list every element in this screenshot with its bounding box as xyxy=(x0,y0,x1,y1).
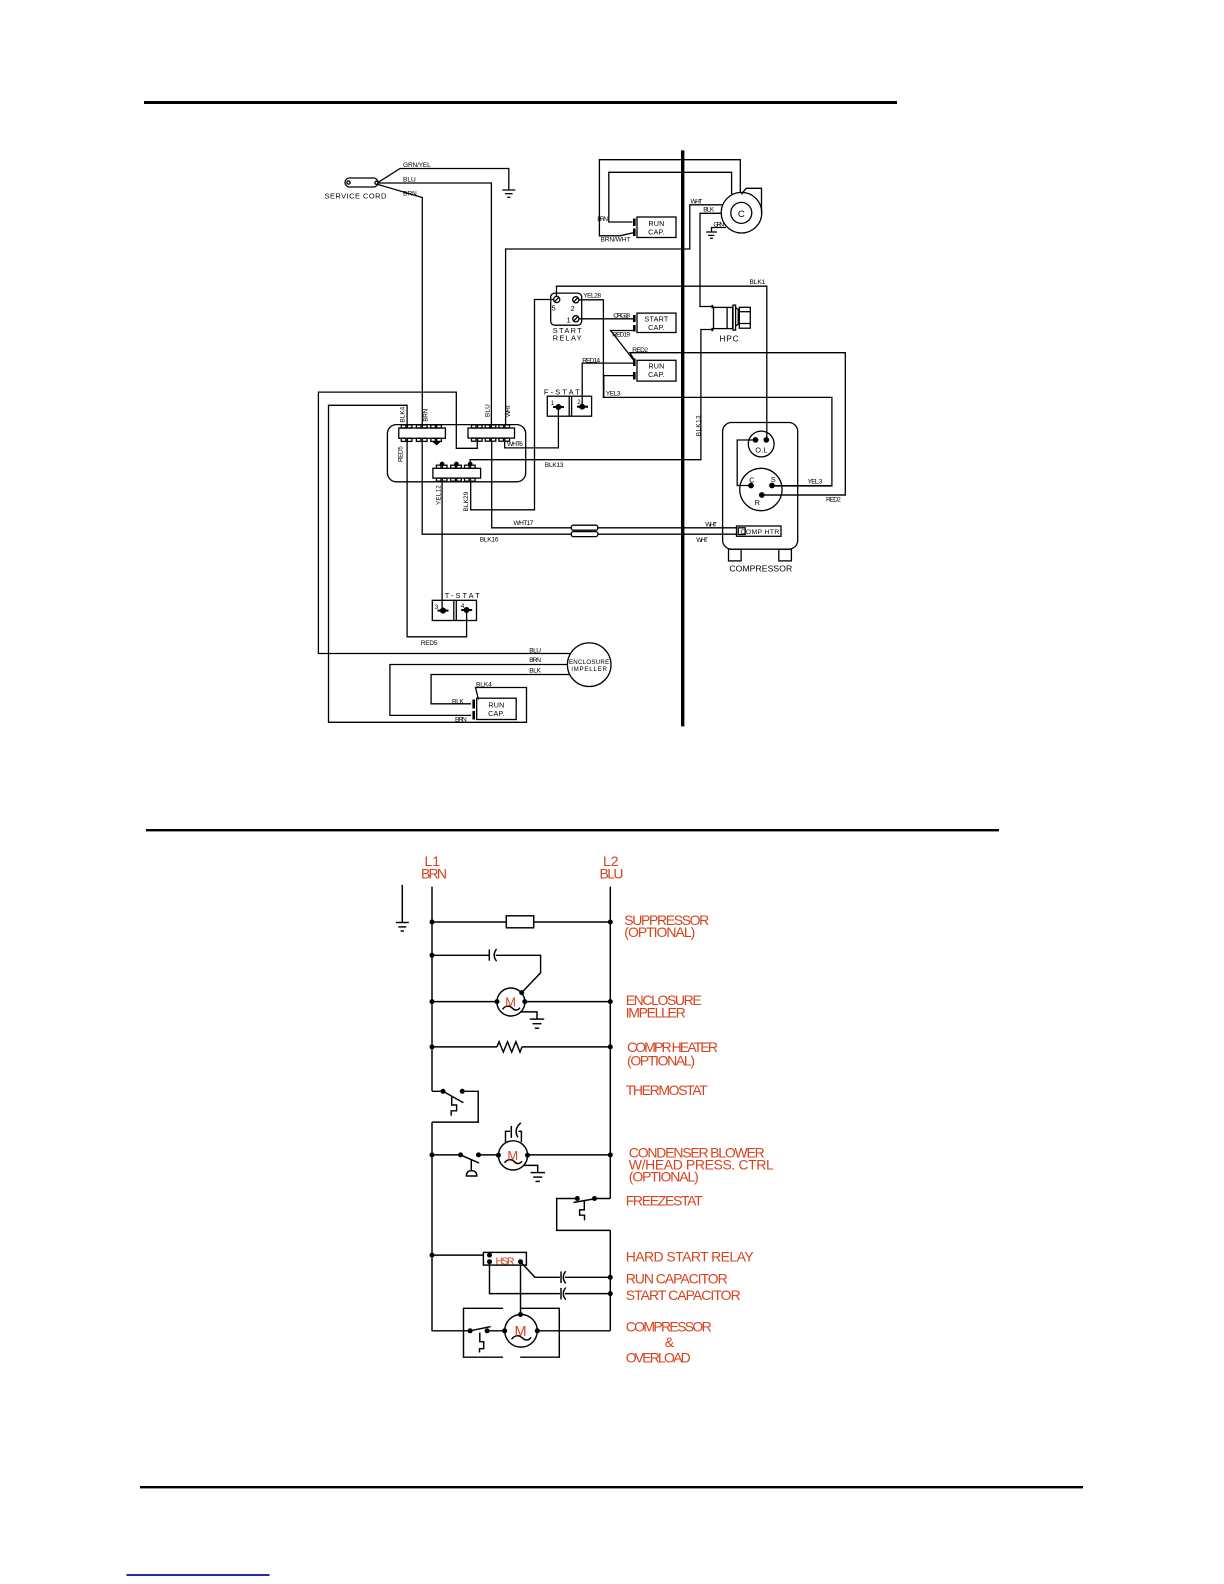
wire BLU from service cord to terminal block 2 xyxy=(378,183,491,425)
wire RED2 stub R pin xyxy=(762,494,846,496)
bottom horizontal rule xyxy=(140,1486,1083,1488)
svg-text:COMPRESSOR: COMPRESSOR xyxy=(729,563,792,573)
wire RED5 terminal block 1 to t-stat 4 xyxy=(407,441,467,636)
svg-text:YEL12: YEL12 xyxy=(435,485,442,505)
svg-text:BLK1: BLK1 xyxy=(750,279,766,286)
svg-text:RED5: RED5 xyxy=(421,640,438,647)
svg-text:BLK13: BLK13 xyxy=(696,415,703,436)
svg-text:BLU: BLU xyxy=(484,404,491,417)
suppressor xyxy=(506,916,533,928)
enclosure impeller motor xyxy=(567,643,611,687)
svg-text:YEL 3: YEL 3 xyxy=(808,478,823,485)
run capacitor RC1 (condenser blower) xyxy=(634,217,676,238)
start capacitor SC1 xyxy=(634,313,676,332)
ground (impeller motor) xyxy=(521,1012,544,1028)
node L1 heater xyxy=(430,1044,435,1049)
svg-text:YEL28: YEL28 xyxy=(583,293,601,300)
svg-text:HSR: HSR xyxy=(496,1256,515,1268)
hard start relay HSR box xyxy=(483,1252,526,1265)
svg-text:BLK4: BLK4 xyxy=(476,682,492,689)
node HSR in bottom xyxy=(487,1259,492,1264)
node M1 right xyxy=(522,999,527,1004)
svg-text:(OPTIONAL): (OPTIONAL) xyxy=(627,1053,695,1069)
top horizontal rule xyxy=(144,101,897,104)
node M1 left xyxy=(495,999,500,1004)
svg-text:RED2: RED2 xyxy=(826,497,841,504)
svg-text:WHT6: WHT6 xyxy=(507,441,523,448)
node M3 top xyxy=(518,1312,523,1317)
wire HSR to compressor motor xyxy=(520,1265,522,1314)
wire BLK4 terminal block 1 to run cap xyxy=(329,405,527,722)
svg-text:RELAY: RELAY xyxy=(553,333,582,342)
wire WHT blower to terminal block 2 xyxy=(506,205,723,425)
wire BLK blower to HPC xyxy=(700,213,722,306)
splice on WHT17 xyxy=(571,525,598,530)
footer blue link rule xyxy=(127,1574,270,1576)
svg-text:WHT: WHT xyxy=(696,537,708,544)
svg-text:BLK13: BLK13 xyxy=(545,462,564,469)
svg-text:M: M xyxy=(505,995,516,1010)
wire BLK1 start relay 5 to compressor overload xyxy=(557,286,767,438)
svg-text:BRN: BRN xyxy=(421,866,447,882)
svg-text:WHT: WHT xyxy=(505,404,512,417)
svg-text:BLK: BLK xyxy=(703,207,714,214)
ground (blower GRN) xyxy=(706,228,726,239)
wire overload row xyxy=(432,1330,611,1332)
svg-text:WHT17: WHT17 xyxy=(514,520,534,527)
svg-text:BLU: BLU xyxy=(529,647,541,654)
svg-text:BRN: BRN xyxy=(455,716,467,723)
node M2 right xyxy=(525,1153,530,1158)
terminal enclosure outline xyxy=(387,425,525,482)
svg-text:3: 3 xyxy=(435,604,439,611)
wire RED14 run cap to f-stat 2 xyxy=(582,363,634,407)
wire WHT6 f-stat 1 to terminal block 2 xyxy=(505,407,559,448)
node L2 suppressor xyxy=(608,920,613,925)
start capacitor (ladder) xyxy=(561,1288,566,1300)
motor M1 enclosure impeller xyxy=(497,988,525,1016)
node M3 right xyxy=(535,1328,540,1333)
wire HSR to run capacitor xyxy=(521,1262,611,1278)
wire YEL28/YEL3 start relay 2 to compressor S xyxy=(579,300,832,486)
ground (service cord GRN/YEL) xyxy=(502,190,515,197)
wire BRN inner loop: run cap to blower xyxy=(609,172,732,222)
blower motor C (condenser fan) xyxy=(721,188,762,233)
wire YEL3 stub S pin xyxy=(772,485,832,487)
node thermostat left xyxy=(441,1089,446,1094)
node M3 left xyxy=(502,1328,507,1333)
svg-text:YEL3: YEL3 xyxy=(606,391,621,398)
wire YEL12 terminal block 3 to t-stat 3 xyxy=(441,481,443,610)
splice on BLK16 xyxy=(571,532,598,537)
wire BRN from service cord to terminal block 1 xyxy=(378,185,422,425)
svg-text:5: 5 xyxy=(552,304,556,313)
run capacitor (ladder) xyxy=(561,1271,566,1283)
svg-text:BLK29: BLK29 xyxy=(463,491,470,511)
node L1 impeller xyxy=(430,999,435,1004)
compressor housing xyxy=(464,1308,560,1357)
wire enclosure impeller row xyxy=(432,1001,610,1003)
svg-text:RED19: RED19 xyxy=(612,332,630,339)
svg-text:IMPELLER: IMPELLER xyxy=(626,1004,686,1020)
t-stat thermostat block xyxy=(432,600,476,620)
run capacitor RC3 (enclosure impeller) xyxy=(474,698,517,719)
node L1 blower xyxy=(430,1152,435,1157)
svg-text:COMPRESSOR: COMPRESSOR xyxy=(626,1319,712,1335)
svg-text:FREEZESTAT: FREEZESTAT xyxy=(626,1193,703,1209)
wire BLK impeller to run cap xyxy=(431,675,569,704)
svg-text:BLK16: BLK16 xyxy=(480,537,499,544)
svg-text:C: C xyxy=(738,209,745,220)
f-stat (freezestat) switch block xyxy=(547,396,591,416)
svg-text:ORG18: ORG18 xyxy=(613,312,630,319)
svg-text:(OPTIONAL): (OPTIONAL) xyxy=(629,1169,699,1185)
node L2 run cap xyxy=(608,1275,613,1280)
resistor compr heater xyxy=(497,1042,522,1052)
wire compr heater row xyxy=(432,1046,610,1048)
run capacitor RC2 (compressor) xyxy=(634,359,676,382)
wire BRN impeller to run cap xyxy=(390,665,568,716)
svg-text:4: 4 xyxy=(461,603,465,610)
thermostat switch xyxy=(432,1091,478,1122)
wire RED19 start cap to run cap xyxy=(611,331,635,362)
motor M3 compressor xyxy=(505,1315,538,1348)
svg-text:HPC: HPC xyxy=(719,333,739,343)
node blower switch left xyxy=(458,1152,463,1157)
svg-text:1: 1 xyxy=(551,401,555,407)
terminal block TB1 xyxy=(399,425,446,445)
svg-text:BRN: BRN xyxy=(423,408,430,421)
svg-text:OVERLOAD: OVERLOAD xyxy=(626,1350,691,1366)
svg-text:BLK: BLK xyxy=(452,698,464,705)
svg-text:1: 1 xyxy=(567,316,571,325)
svg-text:(OPTIONAL): (OPTIONAL) xyxy=(624,924,695,940)
svg-text:M: M xyxy=(514,1324,526,1340)
svg-text:T-STAT: T-STAT xyxy=(445,591,480,600)
wire BLK29 start relay 5 to terminal block 3 xyxy=(471,300,554,510)
svg-text:RED5: RED5 xyxy=(397,446,404,462)
svg-text:THERMOSTAT: THERMOSTAT xyxy=(626,1082,708,1098)
svg-text:F-STAT: F-STAT xyxy=(544,388,580,397)
middle horizontal rule xyxy=(146,829,999,831)
compressor motor pins C S R xyxy=(740,468,782,510)
svg-text:BRN: BRN xyxy=(529,657,541,664)
svg-text:START CAPACITOR: START CAPACITOR xyxy=(626,1287,741,1303)
node L1 HSR xyxy=(430,1253,435,1258)
wire L1 to HSR xyxy=(432,1254,483,1256)
node HSR in top xyxy=(487,1253,492,1258)
wire RED2 run cap to compressor R xyxy=(630,353,845,495)
node freezestat right xyxy=(592,1196,597,1201)
service cord body xyxy=(345,178,378,187)
node L1 suppressor xyxy=(430,920,435,925)
svg-text:BLU: BLU xyxy=(403,176,416,183)
svg-text:BLU: BLU xyxy=(600,866,624,882)
capacitor (blower run cap) xyxy=(506,1123,522,1142)
svg-text:S: S xyxy=(771,475,776,484)
overload switch xyxy=(470,1327,491,1353)
ground (panel) xyxy=(396,885,409,931)
node overload right xyxy=(485,1328,490,1333)
comp heater COMP HTR xyxy=(737,526,782,536)
svg-text:WHT: WHT xyxy=(691,199,703,206)
svg-text:2: 2 xyxy=(577,400,581,406)
terminal block TB2 xyxy=(468,425,515,441)
node L2 heater xyxy=(608,1044,613,1049)
svg-text:CAP.: CAP. xyxy=(648,370,665,379)
svg-text:COMP HTR: COMP HTR xyxy=(741,529,780,536)
terminal block TB3 xyxy=(433,462,481,481)
svg-text:RED2: RED2 xyxy=(632,347,648,354)
svg-text:RED14: RED14 xyxy=(582,357,600,364)
svg-text:BRN: BRN xyxy=(403,191,417,198)
svg-text:BRN: BRN xyxy=(597,216,608,223)
node HSR out xyxy=(518,1259,523,1264)
wire BRN/WHT outer loop: run cap to blower scroll xyxy=(599,160,740,236)
wire ORG18 start relay 1 to start cap xyxy=(579,318,634,320)
wire YEL run cap jumper to YEL3 xyxy=(604,376,635,398)
svg-text:HARD START RELAY: HARD START RELAY xyxy=(626,1248,755,1264)
wire BLK13 HPC to terminal block 3 xyxy=(470,330,713,466)
wire HSR to start capacitor xyxy=(490,1262,611,1294)
compressor body xyxy=(723,423,798,561)
svg-text:&: & xyxy=(665,1334,675,1350)
rail L1 xyxy=(431,887,433,1331)
wire condenser blower row xyxy=(432,1154,610,1156)
node L2 start cap xyxy=(608,1291,613,1296)
wire BLK16 terminal block 1 to comp heater xyxy=(422,441,736,534)
node overload left xyxy=(468,1328,473,1333)
wire O.L to compressor C pin xyxy=(737,440,755,486)
svg-text:2: 2 xyxy=(571,304,575,313)
svg-text:IMPELLER: IMPELLER xyxy=(571,666,607,673)
motor M2 condenser blower xyxy=(498,1141,527,1170)
svg-text:GRN: GRN xyxy=(713,221,724,228)
freezestat switch xyxy=(557,1199,611,1231)
svg-text:CAP.: CAP. xyxy=(648,323,665,332)
svg-text:CAP.: CAP. xyxy=(488,709,505,718)
svg-text:BLK: BLK xyxy=(529,667,541,674)
node thermostat right xyxy=(460,1089,465,1094)
svg-text:CAP.: CAP. xyxy=(648,228,665,237)
svg-text:O.L: O.L xyxy=(755,446,768,455)
svg-text:WHT: WHT xyxy=(705,522,717,529)
svg-text:BRN/WHT: BRN/WHT xyxy=(601,237,631,244)
svg-text:SERVICE CORD: SERVICE CORD xyxy=(325,192,387,201)
ground (blower motor) xyxy=(523,1165,545,1181)
wire impeller cap branch xyxy=(432,955,541,992)
head pressure switch xyxy=(461,1155,480,1176)
wire GRN/YEL from service cord to ground xyxy=(378,169,509,191)
node impeller aux xyxy=(519,990,524,995)
svg-text:R: R xyxy=(755,498,761,507)
rail L2 xyxy=(609,887,611,1331)
wire WHT17 terminal block 2 to comp heater xyxy=(492,441,737,527)
svg-text:C: C xyxy=(749,476,755,485)
capacitor (impeller run cap) xyxy=(489,949,496,961)
node freezestat left xyxy=(575,1196,580,1201)
node M2 left xyxy=(496,1153,501,1158)
svg-text:M: M xyxy=(507,1148,518,1163)
svg-text:BLK4: BLK4 xyxy=(400,406,407,422)
node L1 cap branch xyxy=(430,953,435,958)
wire suppressor row xyxy=(432,921,610,923)
svg-text:RUN CAPACITOR: RUN CAPACITOR xyxy=(626,1271,728,1287)
start relay U1 xyxy=(551,293,582,325)
node blower switch right xyxy=(476,1152,481,1157)
node L2 impeller xyxy=(608,999,613,1004)
page divider heavy vertical line xyxy=(681,150,684,726)
node L2 blower xyxy=(608,1152,613,1157)
wire BLU terminal block 2 to enclosure impeller xyxy=(318,392,570,653)
svg-text:GRN/YEL: GRN/YEL xyxy=(403,162,431,169)
compressor overload O.L xyxy=(748,431,774,457)
HPC high pressure control xyxy=(712,305,750,331)
